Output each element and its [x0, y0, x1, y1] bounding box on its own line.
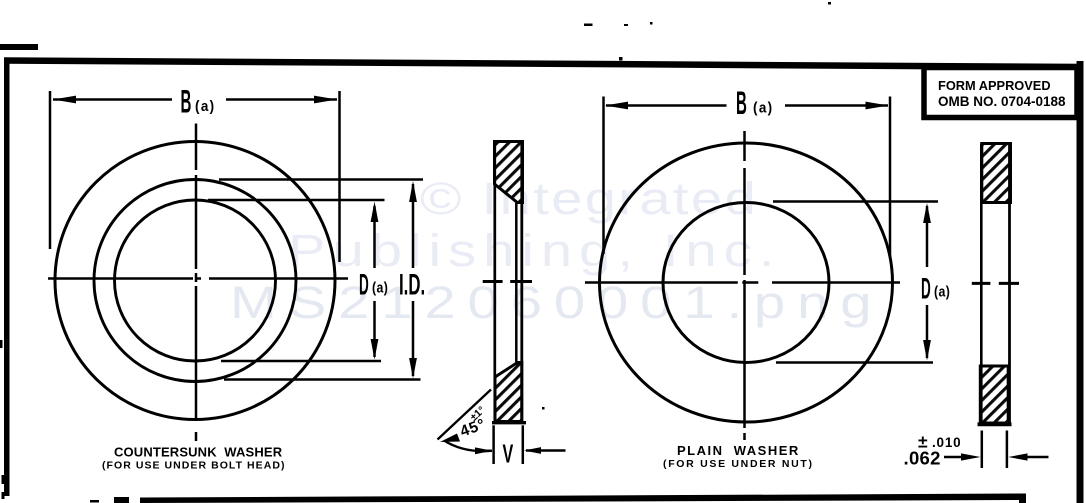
D(a) dimension line: [373, 206, 376, 268]
45 degree arc arrowhead: [440, 434, 460, 443]
B(a) left dimension extension line right: [338, 91, 341, 262]
45 degree reference line: [438, 390, 492, 440]
D(a) I.D. bottom connector line (middle circle): [224, 378, 421, 381]
svg-text:D: D: [921, 271, 931, 305]
plain section top hatch block: [982, 144, 1011, 203]
.062 dimension extension line right: [1006, 431, 1009, 469]
svg-text:PLAIN WASHER: PLAIN WASHER: [677, 443, 800, 458]
svg-text:I.D.: I.D.: [399, 269, 425, 302]
B(a) right dimension line: [606, 104, 727, 107]
B(a) left arrowhead: [53, 96, 76, 104]
svg-text:OMB NO. 0704-0188: OMB NO. 0704-0188: [938, 94, 1066, 109]
countersunk section bottom thick edge: [492, 421, 526, 424]
watermark line 2: [288, 225, 781, 275]
svg-text:COUNTERSUNK WASHER: COUNTERSUNK WASHER: [114, 445, 283, 460]
plain washer outer circle: [600, 143, 893, 422]
plain section right center tick: [999, 282, 1019, 285]
countersunk washer horizontal centerline: [48, 277, 193, 280]
svg-text:(FOR USE UNDER BOLT HEAD): (FOR USE UNDER BOLT HEAD): [102, 460, 286, 472]
D(a) down arrowhead: [371, 339, 379, 360]
svg-text:45°: 45°: [458, 416, 488, 441]
noise marks: [584, 24, 593, 27]
svg-text:(a): (a): [195, 98, 216, 115]
B(a) right arrowhead: [314, 96, 337, 104]
plain section right edge: [1008, 144, 1011, 424]
svg-text:V: V: [503, 438, 514, 468]
D(a) right dimension line: [926, 206, 929, 267]
V dimension right leader arrow: [524, 447, 541, 454]
svg-text:D: D: [359, 267, 369, 301]
svg-text:B: B: [736, 86, 747, 122]
D(a) I.D. top connector line (middle circle): [219, 178, 423, 181]
plain section left center tick: [972, 282, 991, 285]
countersunk washer inner circle: [115, 200, 276, 361]
45 degree label: [458, 416, 488, 441]
svg-text:(FOR USE UNDER NUT): (FOR USE UNDER NUT): [663, 458, 814, 470]
D(a) right top connector line: [773, 200, 938, 203]
B(a) right dimension extension line right: [889, 97, 892, 258]
45 degree arc: [444, 441, 489, 452]
frame top border: [4, 61, 1083, 68]
frame right border: [1077, 61, 1084, 503]
svg-text:B: B: [181, 84, 192, 120]
svg-text:(a): (a): [934, 284, 950, 300]
plain section bottom thick edge: [978, 422, 1012, 426]
B(a) right right arrowhead: [866, 102, 889, 110]
countersunk section left edge: [493, 142, 496, 422]
svg-text:.062: .062: [904, 448, 941, 469]
B(a) right dimension extension line left: [602, 97, 605, 255]
D(a) right up arrowhead: [923, 203, 931, 223]
V dimension left leader arrow: [475, 447, 493, 454]
plain washer inner circle: [663, 203, 829, 363]
D(a) up arrowhead: [371, 202, 379, 223]
plain section bottom hatch block: [980, 366, 1008, 423]
D(a) right bottom connector line: [776, 361, 933, 364]
watermark line 3: [230, 277, 883, 327]
countersunk section hole inner edge: [515, 203, 518, 362]
countersunk washer middle circle: [94, 180, 296, 382]
frame left border: [4, 58, 10, 496]
V label: [503, 438, 514, 468]
FORM APPROVED box: [924, 68, 1077, 118]
plus minus 1 degree label: [468, 404, 488, 424]
countersunk section top hatch block: [495, 142, 523, 203]
B(a) left dimension line: [53, 98, 172, 101]
I.D. dimension line: [412, 184, 415, 268]
frame bottom tick: [1019, 495, 1026, 503]
.062 right leader arrow: [1026, 456, 1049, 459]
countersunk section right outer edge: [520, 142, 523, 422]
D(a) right down arrowhead: [923, 340, 931, 361]
I.D. down arrowhead: [409, 358, 417, 379]
frame bottom line: [140, 494, 1026, 503]
watermark line 1: [420, 173, 758, 223]
B(a) right left arrowhead: [605, 102, 628, 110]
.062 dimension extension line left: [981, 431, 984, 469]
plain section left edge: [980, 144, 983, 424]
B(a) label left: [181, 84, 192, 120]
plain washer vertical centerline: [743, 131, 746, 161]
I.D. up arrowhead: [409, 181, 417, 202]
V dimension extension line left: [492, 425, 495, 464]
svg-text:(a): (a): [753, 100, 774, 117]
svg-text:FORM APPROVED: FORM APPROVED: [938, 78, 1051, 93]
countersunk washer outer circle: [55, 142, 335, 420]
B(a) label right: [736, 86, 747, 122]
D(a) right label: [921, 271, 931, 305]
countersunk section bottom hatch block: [495, 363, 522, 422]
countersunk section right center tick: [510, 280, 532, 283]
svg-text:© Integrated: © Integrated: [420, 173, 758, 223]
plain washer horizontal centerline: [585, 281, 738, 284]
countersunk section left center tick: [483, 280, 503, 283]
svg-text:(a): (a): [372, 280, 388, 296]
.062 left leader arrow: [944, 456, 962, 459]
B(a) left dimension extension line left: [49, 91, 52, 249]
V dimension extension line right: [522, 425, 525, 464]
D(a) I.D. top connector line (inner circle): [208, 199, 385, 202]
D(a) I.D. label: [359, 267, 369, 301]
D(a) I.D. bottom connector line (inner circle): [221, 360, 381, 363]
countersunk washer vertical centerline: [195, 124, 198, 171]
